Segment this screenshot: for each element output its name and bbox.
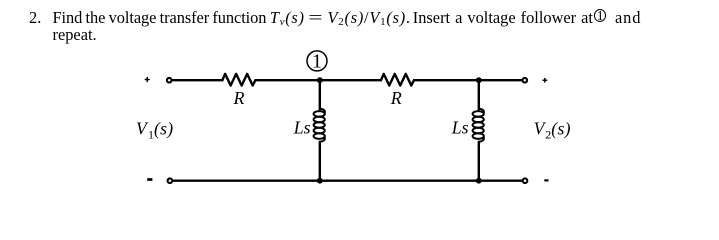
svg-text:1: 1 xyxy=(312,51,322,73)
polarity - (bottom right) xyxy=(544,179,548,181)
label R (left resistor) xyxy=(233,88,245,108)
polarity + (top left) xyxy=(145,77,150,82)
label R (right resistor) xyxy=(390,88,402,108)
junction dot bottom right branch xyxy=(476,178,482,184)
wire top-left segment xyxy=(172,79,222,81)
wire top-right segment xyxy=(414,79,522,81)
wire left branch upper xyxy=(319,80,321,109)
label Ls (left inductor) xyxy=(293,117,311,137)
label Ls (right inductor) xyxy=(451,117,469,137)
label V2(s) xyxy=(534,118,571,141)
resistor R1 (left) xyxy=(222,74,255,86)
resistor R2 (right) xyxy=(381,74,414,86)
node 1 circle label xyxy=(307,51,327,73)
svg-text:Ls: Ls xyxy=(293,117,311,137)
junction dot bottom left branch xyxy=(317,178,323,184)
inductor L1 (left, Ls) xyxy=(314,109,325,142)
wire left branch lower xyxy=(319,142,321,181)
terminal top-right (open) xyxy=(523,78,528,83)
terminal top-left (open) xyxy=(167,78,172,83)
wire right branch lower xyxy=(478,142,480,181)
svg-text:R: R xyxy=(233,88,245,108)
label V1(s) xyxy=(136,118,173,141)
polarity - (bottom left) xyxy=(147,178,152,181)
svg-text:(s): (s) xyxy=(551,118,570,138)
problem statement text xyxy=(29,9,641,43)
terminal bottom-left (open) xyxy=(168,178,173,183)
polarity + (top right) xyxy=(543,78,548,83)
svg-text:R: R xyxy=(390,88,402,108)
inductor L2 (right, Ls) xyxy=(473,109,484,142)
wire bottom xyxy=(173,179,522,181)
svg-text:Ls: Ls xyxy=(451,117,469,137)
terminal bottom-right (open) xyxy=(523,178,528,183)
junction dot top right branch xyxy=(476,77,482,83)
wire top-middle segment xyxy=(255,79,381,81)
wire right branch upper xyxy=(478,80,480,109)
junction node 1 dot (top left branch) xyxy=(317,77,323,83)
svg-text:(s): (s) xyxy=(154,118,173,138)
